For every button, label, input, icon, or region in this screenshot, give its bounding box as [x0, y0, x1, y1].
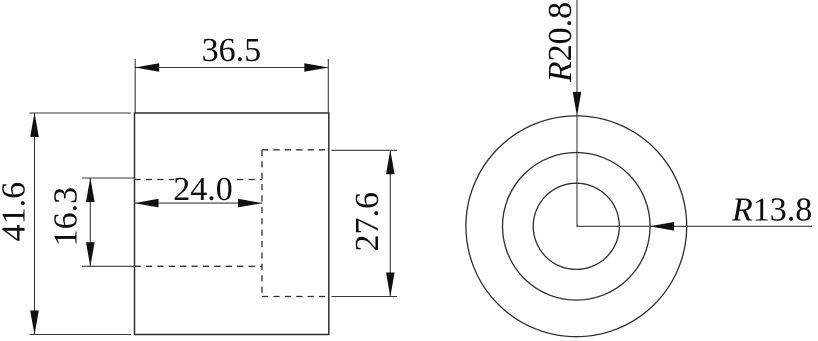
inner circle (bore)	[533, 183, 619, 269]
dimension 27.6 arrow bottom	[386, 273, 395, 297]
svg-text:16.3: 16.3	[47, 187, 84, 247]
dimension 36.5 arrow right	[304, 63, 328, 72]
hidden counterbore top edge (dashed)	[262, 149, 329, 151]
dimension 41.6 extension line bottom	[30, 334, 132, 336]
svg-text:36.5: 36.5	[202, 32, 262, 69]
dimension 24.0 line	[135, 202, 263, 204]
dimension 36.5 extension line left	[134, 59, 136, 113]
dimension 36.5 line	[135, 67, 328, 69]
dimension 41.6 arrow bottom	[30, 311, 39, 335]
hidden bore line top (small bore, dashed)	[135, 179, 263, 181]
svg-text:41.6: 41.6	[0, 182, 33, 242]
dimension 16.3 arrow bottom	[86, 242, 95, 266]
radius R20.8 leader line (vertical)	[576, 0, 578, 226]
dimension 27.6 extension line bottom	[332, 296, 398, 298]
svg-text:24.0: 24.0	[173, 171, 233, 208]
dimension 36.5 extension line right	[327, 59, 329, 113]
dimension 24.0 arrow left	[135, 199, 159, 208]
dimension 16.3 arrow top	[86, 178, 95, 202]
svg-text:R20.8: R20.8	[542, 2, 579, 83]
dimension 27.6 extension line top	[332, 149, 398, 151]
radius R20.8 arrow	[573, 92, 582, 116]
dimension 41.6 extension line top	[30, 112, 132, 114]
dimension 41.6 arrow top	[30, 113, 39, 137]
dimension 24.0 arrow right	[238, 199, 262, 208]
radius R13.8 arrow	[650, 222, 674, 231]
outer circle R20.8 (front view)	[466, 116, 687, 337]
dimension 24.0 label white backing	[174, 176, 232, 201]
dimension 36.5 arrow left	[135, 63, 159, 72]
hidden bore line bottom (small bore, dashed)	[135, 265, 263, 267]
svg-text:27.6: 27.6	[349, 192, 386, 252]
main body rectangle (side view)	[135, 113, 329, 335]
dimension 27.6 arrow top	[386, 150, 395, 174]
dimension 41.6 line	[34, 113, 36, 335]
dimension 16.3 extension line bottom	[82, 265, 135, 267]
svg-text:R13.8: R13.8	[731, 192, 812, 229]
hidden counterbore left edge (dashed vertical)	[261, 150, 263, 297]
dimension 16.3 extension line top	[82, 177, 135, 179]
dimension 16.3 line	[89, 178, 91, 266]
hidden counterbore bottom edge (dashed)	[262, 296, 329, 298]
dimension 27.6 line	[389, 150, 391, 296]
radius R13.8 leader line (horizontal)	[576, 225, 812, 227]
middle circle R13.8	[503, 153, 651, 301]
